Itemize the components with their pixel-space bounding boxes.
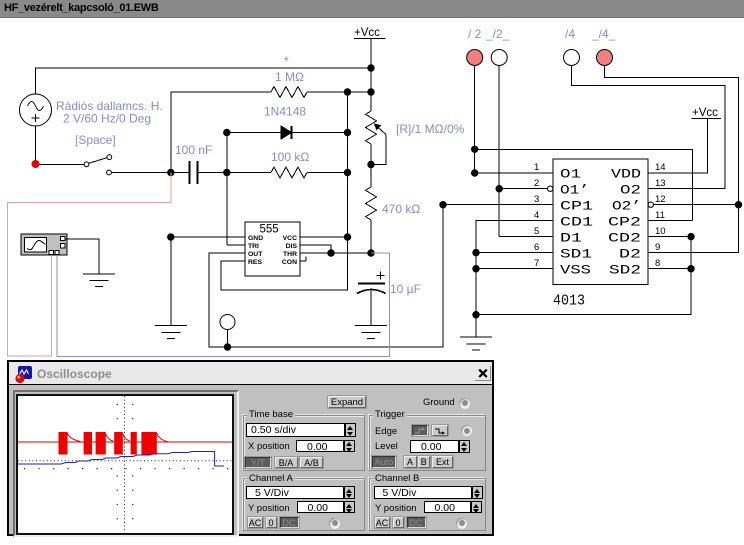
wire 555 CON stub bbox=[300, 257, 306, 262]
svg-text:4: 4 bbox=[534, 210, 539, 221]
node ground bus junction bbox=[472, 311, 479, 318]
svg-text:RES: RES bbox=[248, 259, 262, 266]
wire Vcc down bbox=[370, 39, 372, 93]
svg-text:7: 7 bbox=[534, 258, 539, 269]
node pot bottom junction bbox=[367, 161, 374, 168]
Channel B Y position label bbox=[375, 503, 417, 514]
graticule vertical dotted axis bbox=[124, 396, 126, 533]
AC source V1 bbox=[20, 94, 52, 126]
Channel A 0 button bbox=[266, 517, 277, 528]
node O2b junction bbox=[735, 201, 742, 208]
wire pin1 O1 bbox=[475, 172, 553, 174]
svg-text:VSS: VSS bbox=[560, 263, 591, 278]
svg-text:2 V/60 Hz/0 Deg: 2 V/60 Hz/0 Deg bbox=[63, 112, 151, 126]
resistor R1 1M bbox=[271, 87, 307, 98]
Time base spinner bbox=[345, 423, 356, 437]
capacitor C1 100nF bbox=[171, 161, 227, 184]
svg-text:_/2_: _/2_ bbox=[485, 27, 510, 41]
wire 555 GND bbox=[171, 236, 245, 238]
svg-text:TRI: TRI bbox=[248, 243, 259, 250]
svg-text:14: 14 bbox=[655, 162, 666, 173]
svg-text:12: 12 bbox=[655, 194, 666, 205]
Channel A spinner bbox=[344, 486, 355, 499]
svg-text:1N4148: 1N4148 bbox=[264, 105, 306, 119]
timer U1 555 bbox=[245, 222, 300, 276]
svg-text:DIS: DIS bbox=[286, 243, 298, 250]
Time base group bbox=[243, 415, 365, 472]
svg-text:CP2: CP2 bbox=[608, 215, 641, 230]
wire pin11 CP2 bbox=[648, 220, 692, 222]
Trigger group bbox=[369, 415, 486, 472]
node diode cathode junction bbox=[344, 129, 351, 136]
wire ground stem bbox=[475, 315, 477, 337]
power +Vcc 1 bbox=[354, 27, 386, 39]
X position label bbox=[248, 441, 290, 452]
svg-text:SD1: SD1 bbox=[560, 247, 592, 262]
window title bar bbox=[9, 362, 492, 385]
wire scope channel B (blue) bbox=[57, 253, 390, 357]
A/B button bbox=[300, 457, 323, 469]
bubble pin12 bbox=[648, 202, 653, 207]
wire right bus vertical bbox=[347, 92, 349, 237]
Channel B group bbox=[369, 478, 486, 531]
switch S1 [Space] bbox=[84, 155, 112, 175]
svg-text:O2’: O2’ bbox=[612, 199, 641, 214]
node 1M-pot junction bbox=[344, 88, 351, 95]
Y/T button bbox=[245, 457, 271, 469]
resistor R2 100k bbox=[227, 167, 348, 178]
node A junction bbox=[167, 169, 174, 176]
Channel B radio bbox=[456, 518, 467, 529]
svg-text:100 nF: 100 nF bbox=[175, 143, 212, 157]
channel A decay curves bbox=[68, 433, 168, 442]
node Vcc top-wire junction bbox=[367, 64, 374, 71]
Channel B scale field bbox=[374, 486, 472, 499]
svg-text:D1: D1 bbox=[560, 231, 582, 246]
svg-text:GND: GND bbox=[248, 235, 263, 242]
Channel A Y position label bbox=[248, 503, 290, 514]
X position spinner bbox=[344, 440, 355, 453]
svg-text:9: 9 bbox=[655, 242, 660, 253]
wire source top bbox=[36, 68, 372, 94]
Channel B AC button bbox=[375, 517, 390, 528]
Level spinner bbox=[459, 440, 470, 453]
svg-text:CP1: CP1 bbox=[560, 199, 593, 214]
Auto button bbox=[372, 456, 396, 468]
wire source bottom bbox=[35, 126, 37, 161]
node C1 right junction bbox=[223, 169, 230, 176]
node 100k right junction bbox=[344, 169, 351, 176]
svg-text:3: 3 bbox=[534, 194, 539, 205]
ground 555 bbox=[155, 326, 187, 339]
instrument oscilloscope icon bbox=[21, 234, 67, 255]
connector /2 bbox=[467, 50, 483, 66]
svg-text:*: * bbox=[284, 54, 289, 68]
wire to CP2 bbox=[475, 149, 693, 220]
pin numbers left bbox=[534, 162, 539, 269]
svg-text:6: 6 bbox=[534, 242, 539, 253]
connector _/4_ bbox=[597, 50, 613, 66]
node SD1 junction bbox=[472, 249, 479, 256]
title bar bbox=[0, 0, 744, 18]
graticule horizontal dotted axis bbox=[18, 460, 232, 462]
wire _2_ down bbox=[498, 66, 500, 237]
ground C2 bbox=[355, 326, 387, 339]
svg-text:2: 2 bbox=[534, 178, 539, 189]
svg-text:O2: O2 bbox=[620, 183, 641, 198]
scope screen bezel bbox=[13, 390, 239, 537]
svg-text:/4: /4 bbox=[565, 27, 575, 41]
node red terminal bbox=[32, 160, 40, 168]
node SD2 junction bbox=[687, 265, 694, 272]
wire scope ground bbox=[65, 239, 99, 274]
node diode anode junction bbox=[223, 129, 230, 136]
wire /2 down bbox=[474, 66, 476, 174]
B/A button bbox=[275, 457, 298, 469]
wire pin4 CD1 down bbox=[476, 221, 553, 315]
wire pin7 VSS bbox=[476, 268, 553, 270]
B button bbox=[418, 456, 430, 468]
Expand button bbox=[328, 396, 366, 408]
wire 555 TRI bbox=[227, 244, 245, 246]
channel A red bursts bbox=[59, 432, 157, 455]
svg-text:100 kΩ: 100 kΩ bbox=[271, 150, 309, 164]
svg-text:4013: 4013 bbox=[553, 293, 585, 310]
node VSS junction bbox=[472, 265, 479, 272]
svg-text:555: 555 bbox=[260, 224, 279, 236]
svg-text:O1: O1 bbox=[560, 167, 581, 182]
wire switch to node A bbox=[111, 172, 167, 174]
Channel A DC button bbox=[280, 517, 299, 528]
svg-text:VDD: VDD bbox=[611, 167, 641, 182]
wire 555 RES to VCC loop bbox=[221, 237, 348, 290]
wire node A up to 1M row bbox=[171, 92, 271, 173]
Level label bbox=[375, 441, 398, 452]
scope screen graticule and traces bbox=[18, 396, 232, 533]
Channel B Y field bbox=[424, 501, 471, 513]
wire scope channel A (pink) bbox=[7, 173, 170, 357]
node DIS-THR junction bbox=[327, 249, 334, 256]
svg-text:O1’: O1’ bbox=[560, 183, 589, 198]
svg-text:+Vcc: +Vcc bbox=[692, 107, 718, 119]
Channel A scale field bbox=[246, 486, 344, 499]
Ground label bbox=[423, 397, 455, 408]
node 555 GND junction bbox=[167, 233, 174, 240]
Level field bbox=[410, 440, 459, 453]
Channel B DC button bbox=[407, 517, 426, 528]
svg-text:CON: CON bbox=[282, 259, 297, 266]
wire tap stem bbox=[227, 330, 229, 348]
svg-text:SD2: SD2 bbox=[609, 263, 641, 278]
resistor R3 470k bbox=[366, 165, 377, 254]
wire ground bus right bbox=[476, 237, 691, 315]
svg-text:1: 1 bbox=[534, 162, 539, 173]
Channel B 0 button bbox=[393, 517, 404, 528]
ground 4013 bbox=[460, 337, 492, 350]
svg-text:CD1: CD1 bbox=[560, 215, 593, 230]
svg-text:5: 5 bbox=[534, 226, 539, 237]
svg-text:1 MΩ: 1 MΩ bbox=[275, 70, 304, 84]
wire 1M right bbox=[307, 91, 371, 93]
node CD2 junction bbox=[687, 233, 694, 240]
power +Vcc 2 bbox=[692, 107, 722, 119]
wire pin6 SD1 bbox=[476, 252, 553, 254]
node O1 junction bbox=[471, 169, 478, 176]
chip U2 4013 bbox=[553, 159, 648, 285]
Channel A AC button bbox=[248, 517, 263, 528]
wire pin14 VDD bbox=[648, 118, 708, 173]
wire pin13 O2 to /4 bbox=[572, 66, 726, 189]
Time base value field bbox=[246, 423, 345, 437]
node CP2 feed junction bbox=[471, 146, 478, 153]
svg-text:D2: D2 bbox=[619, 247, 641, 262]
graticule division dots row bbox=[24, 468, 228, 469]
svg-text:CD2: CD2 bbox=[608, 231, 641, 246]
svg-text:THR: THR bbox=[283, 251, 297, 258]
wire pin9 D2 to _4_ bbox=[605, 66, 739, 253]
capacitor C2 10uF bbox=[357, 272, 386, 326]
Channel A radio bbox=[329, 518, 340, 529]
wire 555 VCC bbox=[300, 236, 348, 238]
svg-text:[Space]: [Space] bbox=[75, 133, 116, 147]
pin numbers right bbox=[655, 162, 666, 269]
bubble pin2 bbox=[548, 186, 553, 191]
Channel A group bbox=[243, 478, 365, 531]
node THR junction bbox=[367, 249, 374, 256]
wire diode-100k-TRI vertical bbox=[226, 133, 228, 245]
wire 555 OUT to CP1 bbox=[209, 205, 443, 347]
Channel A Y spinner bbox=[344, 501, 355, 513]
Ext button bbox=[432, 456, 453, 468]
A button bbox=[404, 456, 417, 468]
wire 555 DIS to THR bbox=[300, 245, 331, 253]
potentiometer R 1M bbox=[366, 92, 387, 165]
node 555 VCC junction bbox=[344, 233, 351, 240]
wire pin3 CP1 bbox=[443, 204, 553, 206]
wire pin8 SD2 bbox=[648, 268, 691, 270]
wire 555 THR bbox=[300, 252, 371, 254]
channel B blue trace bbox=[18, 452, 224, 467]
svg-text:10 µF: 10 µF bbox=[390, 282, 421, 296]
svg-text:+Vcc: +Vcc bbox=[354, 27, 380, 39]
wire red node to switch bbox=[40, 163, 85, 165]
wire pin12 O2' bbox=[654, 204, 739, 206]
svg-text:OUT: OUT bbox=[248, 251, 263, 258]
Channel B Y spinner bbox=[471, 501, 482, 513]
wire pin5 D1 bbox=[499, 236, 553, 238]
Edge radio bbox=[461, 425, 472, 436]
svg-text:470 kΩ: 470 kΩ bbox=[382, 202, 420, 216]
wire pin10 CD2 bbox=[648, 236, 691, 238]
X position field bbox=[296, 440, 344, 453]
node CP1 junction bbox=[439, 201, 446, 208]
Channel A Y field bbox=[297, 501, 344, 513]
oscilloscope window bbox=[7, 360, 494, 536]
svg-text:8: 8 bbox=[655, 258, 660, 269]
connector OUT tap bbox=[220, 315, 235, 330]
close button bbox=[475, 366, 491, 381]
Channel B spinner bbox=[472, 486, 483, 499]
node O1b junction bbox=[496, 185, 503, 192]
titlebar icon bbox=[15, 366, 33, 384]
wire GND down bbox=[170, 237, 172, 326]
Edge falling button bbox=[432, 425, 448, 436]
wire pin2 O1' bbox=[499, 188, 547, 190]
node OUT tap junction bbox=[224, 343, 231, 350]
svg-text:/ 2: / 2 bbox=[468, 27, 482, 41]
svg-text:11: 11 bbox=[655, 210, 665, 221]
svg-text:10: 10 bbox=[655, 226, 666, 237]
connector _/2_ bbox=[491, 50, 507, 66]
Edge label bbox=[375, 426, 397, 437]
svg-text:VCC: VCC bbox=[283, 235, 297, 242]
channel A red trace baseline bbox=[18, 441, 232, 443]
Edge rising button bbox=[412, 425, 428, 436]
graticule division dots column bbox=[117, 404, 134, 520]
svg-text:13: 13 bbox=[655, 178, 666, 189]
svg-text:[R]/1 MΩ/0%: [R]/1 MΩ/0% bbox=[396, 122, 465, 136]
connector /4 bbox=[564, 50, 580, 66]
svg-text:_/4_: _/4_ bbox=[591, 27, 616, 41]
Ground radio bbox=[459, 398, 470, 409]
ground scope bbox=[83, 274, 115, 287]
diode D1 1N4148 bbox=[227, 126, 348, 139]
